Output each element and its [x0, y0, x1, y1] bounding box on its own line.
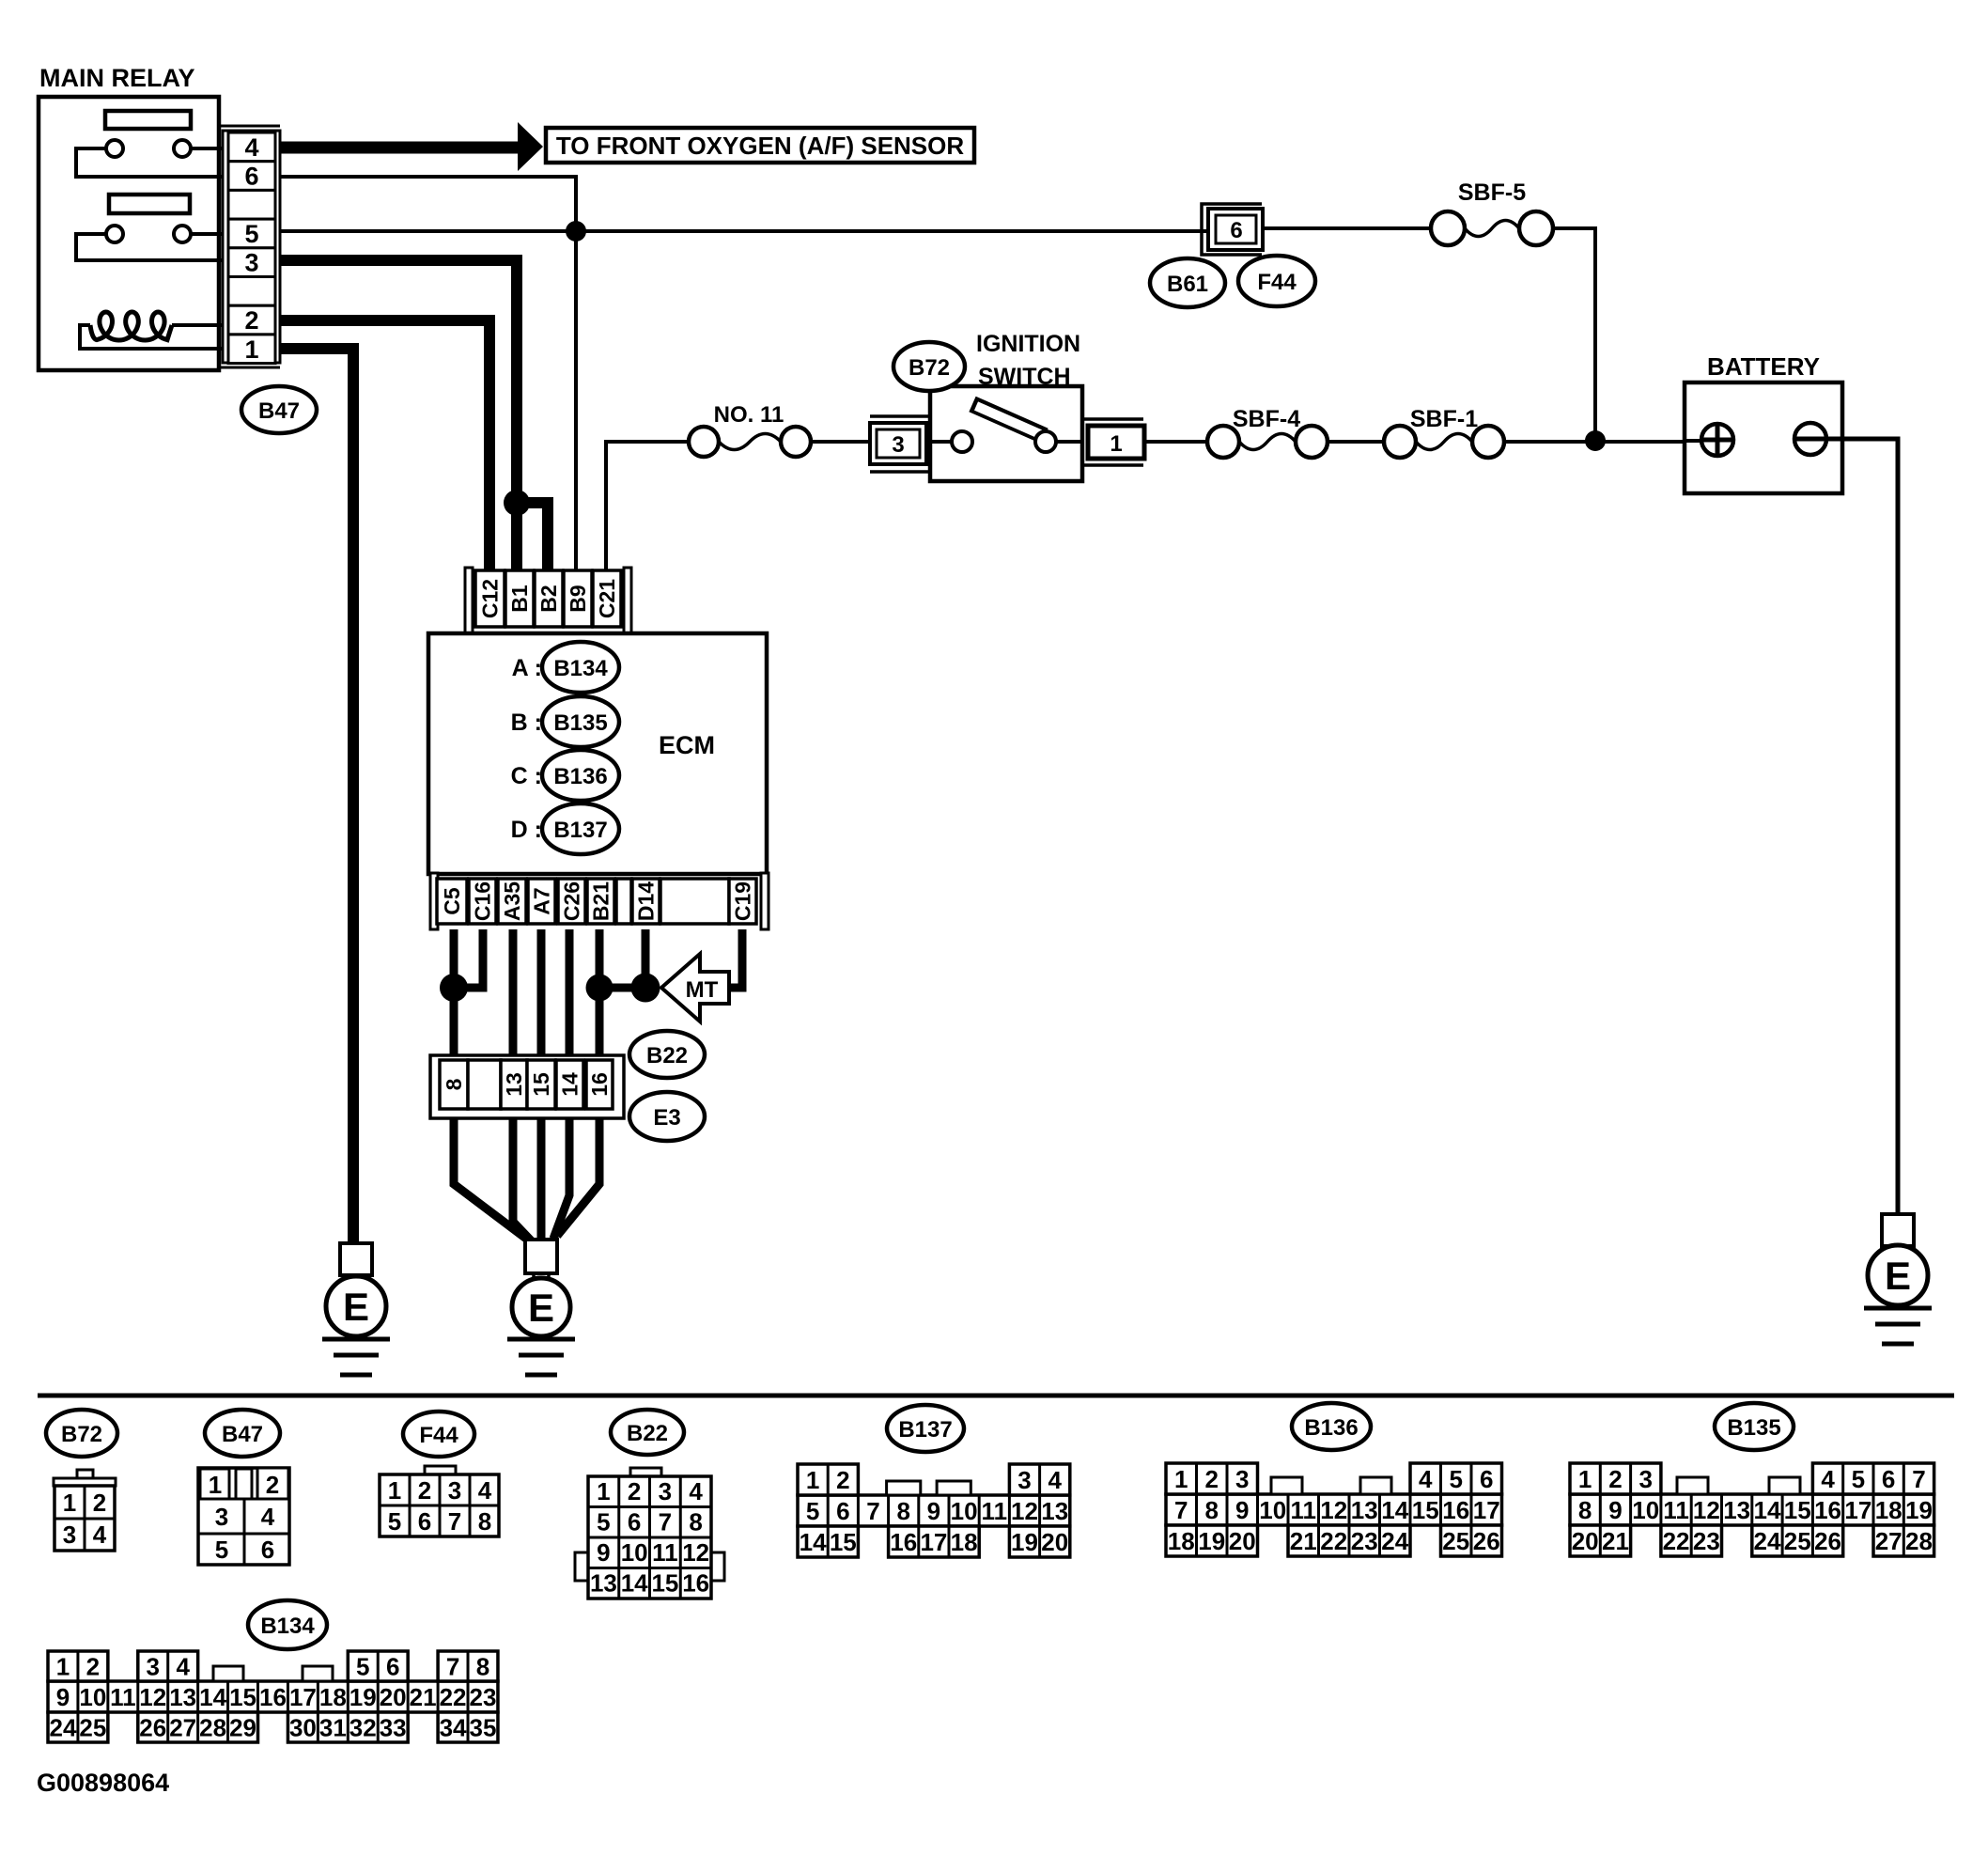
connector view B137 middle row [798, 1495, 1070, 1526]
connector B47 strip bracket bottom [220, 367, 280, 369]
svg-text:2: 2 [836, 1466, 849, 1494]
svg-text:26: 26 [1814, 1527, 1841, 1555]
svg-text:9: 9 [1608, 1496, 1622, 1524]
relay contact 1 right wire to pin 4 [191, 147, 223, 150]
svg-text:C :: C : [511, 763, 542, 789]
svg-text:C26: C26 [560, 881, 584, 921]
ECM bottom connector left end bar [430, 873, 438, 929]
svg-text:1: 1 [1110, 431, 1122, 457]
B47 cell 2 [257, 1468, 288, 1499]
connector view B136 bottom cells 25 26 [1441, 1525, 1502, 1556]
svg-text:8: 8 [1578, 1496, 1592, 1524]
svg-text:14: 14 [1381, 1496, 1408, 1524]
junction node C5/C16 [440, 974, 468, 1002]
svg-text:3: 3 [215, 1503, 228, 1531]
oval B134 (bottom) [248, 1600, 327, 1649]
svg-text:SBF-4: SBF-4 [1233, 406, 1300, 432]
ECM bottom pin C16 [469, 879, 496, 924]
svg-text:1: 1 [244, 335, 258, 364]
svg-text:26: 26 [139, 1714, 166, 1742]
connector E3 pin cell 8 [440, 1060, 468, 1109]
svg-text:B :: B : [511, 710, 542, 736]
svg-text:4: 4 [176, 1653, 190, 1681]
svg-text:4: 4 [1419, 1465, 1433, 1493]
svg-text:G00898064: G00898064 [37, 1769, 169, 1797]
svg-text:25: 25 [79, 1714, 106, 1742]
svg-text:4: 4 [478, 1476, 492, 1505]
svg-text:1: 1 [56, 1653, 70, 1681]
svg-text:B134: B134 [260, 1614, 315, 1639]
connector 1 box [1088, 426, 1144, 459]
connector view B22 tab [630, 1468, 661, 1476]
svg-text:D :: D : [511, 817, 542, 843]
wire relay pin 5 to connector 6 [280, 229, 1206, 233]
svg-text:11: 11 [982, 1497, 1008, 1525]
svg-text:E: E [343, 1285, 369, 1329]
svg-text:24: 24 [1753, 1527, 1780, 1555]
wire ECM A35 to E3 pin 13 (thick) [509, 929, 518, 1062]
svg-text:B21: B21 [589, 881, 613, 921]
fuse NO. 11 [689, 427, 719, 457]
svg-text:5: 5 [244, 220, 258, 248]
wire connector 6 to SBF-5 [1263, 226, 1431, 230]
separator line [38, 1394, 1954, 1398]
wire E3 pin 8 to ground (thick) [454, 1118, 530, 1241]
svg-text:6: 6 [386, 1653, 399, 1681]
wire relay pin 4 to oxygen sensor (thick) [280, 142, 520, 154]
svg-text:13: 13 [1041, 1497, 1068, 1525]
relay contact 2 right wire to pin 5 [191, 232, 225, 236]
svg-text:C5: C5 [440, 887, 464, 915]
connector view B136 top tabs [1271, 1477, 1302, 1494]
svg-text:30: 30 [289, 1714, 317, 1742]
svg-text:21: 21 [1602, 1527, 1629, 1555]
svg-text:ECM: ECM [659, 731, 715, 759]
svg-text:19: 19 [1198, 1527, 1225, 1555]
connector E3 pin cell 16 [586, 1060, 613, 1109]
svg-text:10: 10 [1259, 1496, 1286, 1524]
wire ECM B21 to E3 pin 16 (thick) [596, 929, 604, 1062]
B47 middle key cell [236, 1469, 252, 1499]
svg-text:MAIN RELAY: MAIN RELAY [39, 64, 195, 92]
svg-text:17: 17 [1844, 1496, 1872, 1524]
connector view B134 top cells 7 8 [438, 1651, 498, 1681]
svg-text:3: 3 [244, 249, 258, 277]
svg-text:B72: B72 [909, 355, 950, 381]
svg-text:B61: B61 [1167, 272, 1208, 297]
svg-text:10: 10 [79, 1683, 106, 1711]
ECM top pin B9 [564, 570, 592, 627]
svg-text:1: 1 [1174, 1465, 1188, 1493]
battery minus terminal [1794, 423, 1826, 455]
svg-text:17: 17 [1473, 1496, 1500, 1524]
wire relay pin 3 to ECM B1 (thick) [280, 260, 517, 570]
connector view B72 grid [54, 1486, 115, 1551]
svg-text:18: 18 [951, 1528, 978, 1556]
oval B47 (bottom) [205, 1410, 280, 1457]
svg-text:8: 8 [689, 1508, 702, 1536]
svg-text:14: 14 [199, 1683, 226, 1711]
svg-text:22: 22 [1663, 1527, 1690, 1555]
connector view B137 top cells 3 4 [1009, 1464, 1069, 1495]
wire ECM C26 to E3 pin 14 (thick) [566, 929, 574, 1062]
oval B22 (top) [629, 1031, 705, 1078]
svg-text:5: 5 [1450, 1465, 1463, 1493]
ECM bottom connector right end bar [761, 873, 769, 929]
svg-text:33: 33 [380, 1714, 407, 1742]
ignition switch blade [972, 404, 1045, 436]
svg-text:1: 1 [597, 1477, 610, 1505]
svg-text:20: 20 [1229, 1527, 1256, 1555]
svg-text:8: 8 [476, 1653, 489, 1681]
wire E3 pin 13 to ground (thick) [513, 1118, 532, 1241]
connector B47 strip outer box [223, 131, 280, 363]
oval F44 (top) [1238, 256, 1315, 306]
svg-text:4: 4 [689, 1477, 703, 1505]
svg-text:13: 13 [590, 1569, 617, 1598]
wire SBF-4 to SBF-1 [1328, 440, 1384, 444]
oval B137 (bottom) [887, 1405, 964, 1452]
connector B47 pin cell blank [228, 277, 275, 306]
connector B47 pin cell 6 [228, 162, 275, 191]
svg-text:10: 10 [1632, 1496, 1659, 1524]
svg-text:23: 23 [1351, 1527, 1378, 1555]
junction node battery feed [1585, 430, 1606, 451]
connector view B47 grid [198, 1468, 289, 1565]
svg-text:F44: F44 [419, 1423, 458, 1448]
svg-text:2: 2 [1608, 1465, 1622, 1493]
connector view B137 top cells 1 2 [798, 1464, 858, 1495]
relay contact 2 circles [106, 226, 123, 242]
oval B47 (top) [241, 386, 317, 433]
oval B135 (bottom) [1715, 1403, 1794, 1450]
wire ECM C21 up to NO.11 fuse [606, 442, 689, 570]
connector B47 strip bracket top [220, 125, 280, 128]
battery plus terminal [1685, 439, 1701, 443]
wire relay pin 2 to ECM C12 (thick) [280, 320, 489, 570]
svg-text:7: 7 [448, 1507, 461, 1536]
svg-text:25: 25 [1442, 1527, 1469, 1555]
fuse SBF-1 [1384, 426, 1416, 458]
svg-text:1: 1 [388, 1476, 401, 1505]
svg-text:13: 13 [502, 1072, 526, 1097]
connector view B137 bottom cells 19 20 [1009, 1526, 1069, 1557]
svg-text:9: 9 [597, 1538, 610, 1567]
svg-text:17: 17 [920, 1528, 947, 1556]
battery box [1685, 382, 1842, 493]
connector view B135 bottom cells 24 25 26 [1752, 1525, 1843, 1556]
svg-text:11: 11 [1663, 1496, 1689, 1524]
svg-text:1: 1 [209, 1471, 222, 1499]
connector B47 pin cell 2 [228, 305, 275, 335]
svg-text:B22: B22 [627, 1421, 668, 1446]
svg-text:31: 31 [319, 1714, 347, 1742]
ECM bottom pin A35 [498, 879, 526, 924]
svg-text:21: 21 [1290, 1527, 1317, 1555]
svg-text:7: 7 [866, 1497, 879, 1525]
connector view B22 side tabs [575, 1552, 588, 1581]
svg-text:13: 13 [1351, 1496, 1378, 1524]
svg-text:32: 32 [349, 1714, 377, 1742]
svg-text:B135: B135 [1727, 1415, 1780, 1441]
ground E (ECM) [525, 1240, 557, 1273]
wire to ECM pin B9 [574, 231, 578, 570]
svg-text:16: 16 [259, 1683, 287, 1711]
connector view B135 bottom cells 22 23 [1661, 1525, 1722, 1556]
connector view B136 top cells 4 5 6 [1410, 1463, 1502, 1494]
svg-text:2: 2 [93, 1489, 106, 1517]
connector view B135 top cells 1 2 3 [1570, 1463, 1661, 1494]
svg-text:C12: C12 [478, 579, 503, 618]
connector view B134 middle row [48, 1681, 498, 1712]
label box TO FRONT OXYGEN (A/F) SENSOR [546, 128, 974, 163]
svg-text:B136: B136 [553, 764, 607, 789]
connector view B136 top cells 1 2 3 [1166, 1463, 1258, 1494]
svg-text:14: 14 [800, 1528, 827, 1556]
svg-text:E: E [528, 1286, 554, 1330]
svg-text:15: 15 [1412, 1496, 1439, 1524]
relay contact 2 left wire to pin 3 [76, 234, 223, 260]
relay coil right wire to pin 2 [172, 323, 223, 327]
svg-text:4: 4 [261, 1503, 275, 1531]
connector view B134 bottom cells 30-33 [287, 1712, 408, 1742]
svg-text:15: 15 [229, 1683, 256, 1711]
connector view B136 middle row [1166, 1494, 1502, 1525]
svg-text:13: 13 [1723, 1496, 1750, 1524]
svg-text:19: 19 [1011, 1528, 1038, 1556]
connector view B137 bottom cells 16 17 18 [889, 1526, 980, 1557]
svg-text:4: 4 [1048, 1466, 1062, 1494]
wire NO.11 to connector 3 [811, 440, 870, 444]
connector view B137 bottom cells 14 15 [798, 1526, 858, 1557]
connector view B135 top cells 4 5 6 7 [1812, 1463, 1934, 1494]
svg-text:28: 28 [1905, 1527, 1933, 1555]
ground E (main relay) [340, 1243, 372, 1275]
connector 3 inner box [877, 429, 920, 458]
svg-text:22: 22 [1320, 1527, 1347, 1555]
connector B47 pin cell 4 [228, 133, 275, 162]
svg-text:SBF-5: SBF-5 [1458, 179, 1526, 206]
oval E3 [629, 1092, 705, 1141]
svg-text:2: 2 [1205, 1465, 1219, 1493]
svg-text:10: 10 [621, 1538, 648, 1567]
svg-text:12: 12 [1693, 1496, 1720, 1524]
svg-text:4: 4 [93, 1521, 107, 1549]
svg-text:8: 8 [896, 1497, 909, 1525]
svg-text:12: 12 [139, 1683, 166, 1711]
svg-text:28: 28 [199, 1714, 226, 1742]
svg-text:5: 5 [1852, 1465, 1865, 1493]
svg-text:13: 13 [169, 1683, 196, 1711]
svg-text:14: 14 [1753, 1496, 1780, 1524]
connector view B72 tab [77, 1470, 93, 1478]
wire E3 pin 16 to ground (thick) [557, 1118, 599, 1236]
svg-text:27: 27 [1875, 1527, 1903, 1555]
svg-text:5: 5 [597, 1508, 610, 1536]
svg-text:1: 1 [806, 1466, 819, 1494]
ECM bottom pin C19 [729, 879, 756, 924]
svg-text:2: 2 [266, 1471, 279, 1499]
svg-text:21: 21 [410, 1683, 437, 1711]
svg-text:3: 3 [1017, 1466, 1031, 1494]
svg-text:14: 14 [621, 1569, 648, 1598]
oval F44 (bottom) [403, 1411, 474, 1457]
ECM bottom pin B21 [587, 879, 614, 924]
svg-text:A :: A : [512, 655, 542, 681]
svg-text:3: 3 [448, 1476, 461, 1505]
relay fixed contact bar 2 [109, 195, 190, 213]
connector view B137 top tabs [887, 1481, 921, 1495]
svg-text:16: 16 [890, 1528, 917, 1556]
connector view B134 bottom cells 26-29 [138, 1712, 258, 1742]
wire ECM C16 joining C5 (thick) [454, 929, 483, 988]
ECM top pin C12 [475, 570, 505, 627]
MT tag arrow [661, 954, 729, 1022]
svg-text:BATTERY: BATTERY [1707, 352, 1820, 381]
svg-text:19: 19 [1905, 1496, 1933, 1524]
svg-text:9: 9 [927, 1497, 940, 1525]
svg-text:5: 5 [806, 1497, 819, 1525]
svg-text:5: 5 [388, 1507, 401, 1536]
svg-text:20: 20 [1041, 1528, 1068, 1556]
svg-text:18: 18 [319, 1683, 347, 1711]
relay coil [90, 312, 172, 340]
svg-text:12: 12 [1011, 1497, 1038, 1525]
svg-text:3: 3 [147, 1653, 160, 1681]
svg-text:C19: C19 [731, 881, 755, 921]
svg-text:B135: B135 [553, 710, 607, 736]
svg-text:A35: A35 [500, 881, 524, 921]
connector B22/E3 outer box [430, 1055, 624, 1118]
svg-text:35: 35 [470, 1714, 497, 1742]
svg-text:SBF-1: SBF-1 [1410, 406, 1478, 432]
svg-text:F44: F44 [1257, 270, 1297, 295]
fuse SBF-4 [1207, 426, 1239, 458]
connector view B136 bottom cells 21-24 [1288, 1525, 1410, 1556]
svg-text:15: 15 [830, 1528, 857, 1556]
connector view B134 top cells 1 2 [48, 1651, 108, 1681]
svg-text:7: 7 [446, 1653, 459, 1681]
svg-text:MT: MT [686, 977, 719, 1003]
oval B61 [1150, 258, 1225, 307]
svg-text:B47: B47 [222, 1422, 263, 1447]
svg-text:B22: B22 [646, 1043, 688, 1068]
ignition switch box B72 [930, 386, 1082, 481]
wire ECM C5 down to E3 pin 8 (thick) [450, 929, 458, 1057]
svg-text:7: 7 [659, 1508, 672, 1536]
svg-text:TO FRONT OXYGEN (A/F) SENSOR: TO FRONT OXYGEN (A/F) SENSOR [556, 132, 965, 160]
svg-text:4: 4 [244, 133, 258, 162]
svg-text:6: 6 [244, 163, 258, 191]
relay fixed contact bar 1 [105, 111, 191, 129]
relay coil left wire to pin 1 [80, 325, 223, 349]
svg-text:16: 16 [587, 1072, 612, 1097]
svg-text:4: 4 [1821, 1465, 1835, 1493]
svg-text:23: 23 [470, 1683, 497, 1711]
oval B136 (bottom) [1292, 1403, 1371, 1450]
connector view B135 middle row [1570, 1494, 1934, 1525]
svg-text:24: 24 [50, 1714, 77, 1742]
svg-text:2: 2 [628, 1477, 641, 1505]
svg-text:3: 3 [1639, 1465, 1653, 1493]
svg-text:1: 1 [63, 1489, 76, 1517]
connector view B134 bottom cells 24 25 [48, 1712, 108, 1742]
connector view B136 bottom cells 18 19 20 [1166, 1525, 1258, 1556]
svg-text:12: 12 [682, 1538, 709, 1567]
svg-text:B72: B72 [61, 1422, 102, 1447]
svg-text:14: 14 [558, 1072, 582, 1097]
connector E3 pin cell blank [468, 1060, 501, 1109]
connector B47 pin cell 3 [228, 248, 275, 277]
connector 3 bracket lines [870, 414, 928, 418]
svg-text:2: 2 [86, 1653, 100, 1681]
connector B47 pin cell 5 [228, 219, 275, 248]
svg-text:B9: B9 [566, 585, 590, 612]
connector view B135 bottom cells 20 21 [1570, 1525, 1631, 1556]
svg-text:11: 11 [1291, 1496, 1317, 1524]
svg-text:B2: B2 [536, 585, 561, 612]
junction node B1/B2 [504, 490, 530, 516]
fuse SBF-5 [1431, 211, 1465, 245]
svg-text:6: 6 [1230, 218, 1242, 243]
ECM bottom pin blank [660, 879, 729, 924]
svg-text:9: 9 [1235, 1496, 1249, 1524]
connector view B135 bottom cells 27 28 [1873, 1525, 1934, 1556]
connector 6 inner box [1216, 215, 1256, 243]
svg-text:5: 5 [215, 1536, 228, 1564]
svg-text:6: 6 [261, 1536, 274, 1564]
wire SBF-1 to battery [1504, 440, 1685, 444]
svg-text:3: 3 [659, 1477, 672, 1505]
B47 cell 1 [200, 1469, 229, 1499]
svg-text:2: 2 [244, 306, 258, 335]
svg-text:8: 8 [1205, 1496, 1219, 1524]
connector view F44 tab [425, 1466, 456, 1474]
svg-text:9: 9 [56, 1683, 70, 1711]
ECM top connector right end bar [624, 568, 631, 635]
svg-text:10: 10 [951, 1497, 978, 1525]
svg-text:B137: B137 [898, 1417, 952, 1443]
svg-text:NO. 11: NO. 11 [714, 402, 784, 428]
svg-text:7: 7 [1174, 1496, 1188, 1524]
junction node pin5/pin6/B9 [566, 221, 586, 242]
junction node B21/D14 link [599, 984, 645, 992]
relay contact 1 circles [106, 140, 123, 157]
ignition switch right contact [1056, 440, 1082, 444]
ECM top pin C21 [593, 570, 621, 627]
connector E3 pin cell 13 [501, 1060, 527, 1109]
svg-text:6: 6 [1882, 1465, 1895, 1493]
connector 3 outer box [870, 423, 926, 464]
wire E3 pin 14 to ground (thick) [553, 1118, 569, 1239]
ECM bottom pin C5 [437, 879, 467, 924]
ground E (battery) [1882, 1214, 1914, 1246]
svg-text:3: 3 [892, 432, 904, 458]
ECM bottom pin D14 [632, 879, 660, 924]
svg-text:C16: C16 [471, 881, 495, 921]
svg-text:C21: C21 [595, 579, 619, 618]
svg-text:15: 15 [651, 1569, 678, 1598]
connector view B72 lid [54, 1478, 116, 1486]
connector E3 pin cell 14 [556, 1060, 583, 1109]
wire E3 pin 15 to ground (thick) [537, 1118, 546, 1241]
oval B72 (top) [893, 342, 965, 391]
ECM bottom pin A7 [528, 879, 555, 924]
svg-text:B47: B47 [258, 398, 300, 424]
svg-text:D14: D14 [634, 881, 659, 921]
connector E3 pin cell 15 [527, 1060, 555, 1109]
connector B47 pin cell blank [228, 190, 275, 219]
